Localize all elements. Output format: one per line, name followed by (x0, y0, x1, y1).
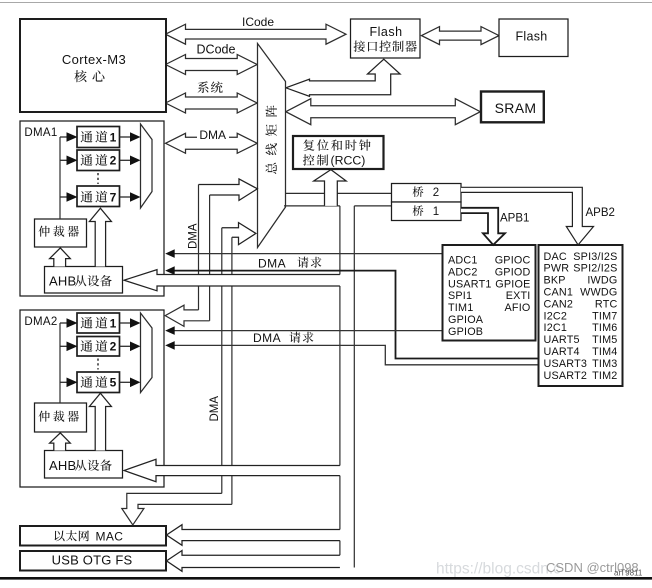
svg-text:TIM3: TIM3 (592, 358, 617, 370)
svg-text:USART3: USART3 (544, 358, 588, 370)
svg-text:https://blog.csdn.c: https://blog.csdn.c (436, 561, 561, 578)
svg-text:IWDG: IWDG (587, 275, 617, 287)
svg-text:AHB: AHB (49, 274, 76, 289)
svg-text:DMA: DMA (188, 223, 200, 249)
svg-text:DCode: DCode (197, 43, 236, 57)
svg-text:1: 1 (110, 130, 117, 144)
svg-text:5: 5 (110, 376, 117, 390)
svg-text:UART5: UART5 (544, 334, 580, 346)
svg-text:TIM1: TIM1 (448, 302, 473, 314)
svg-text:APB1: APB1 (500, 213, 529, 225)
svg-text:ICode: ICode (242, 15, 274, 29)
svg-text:TIM5: TIM5 (592, 334, 617, 346)
svg-text:CAN1: CAN1 (544, 287, 574, 299)
svg-text:Flash: Flash (369, 25, 402, 39)
svg-text:AHB: AHB (49, 458, 76, 473)
svg-text:SPI1: SPI1 (448, 290, 472, 302)
svg-text:GPIOC: GPIOC (495, 255, 531, 267)
svg-text:DMA1: DMA1 (24, 127, 57, 139)
svg-text:CAN2: CAN2 (544, 298, 574, 310)
svg-text:TIM6: TIM6 (592, 322, 617, 334)
svg-text:GPIOD: GPIOD (495, 266, 531, 278)
svg-text:SRAM: SRAM (495, 100, 537, 116)
svg-text:ADC1: ADC1 (448, 255, 478, 267)
svg-text:2: 2 (433, 187, 439, 199)
svg-text:PWR: PWR (544, 263, 570, 275)
svg-text:GPIOE: GPIOE (495, 278, 530, 290)
svg-text:USART1: USART1 (448, 278, 492, 290)
svg-text:SPI2/I2S: SPI2/I2S (573, 263, 617, 275)
svg-text:2: 2 (110, 154, 117, 168)
svg-text:USB OTG FS: USB OTG FS (52, 552, 133, 567)
svg-text:DMA: DMA (258, 257, 286, 271)
svg-text:WWDG: WWDG (580, 287, 617, 299)
svg-text:AFIO: AFIO (505, 302, 531, 314)
svg-text:MAC: MAC (96, 529, 124, 543)
svg-text:I2C1: I2C1 (544, 322, 568, 334)
svg-text:DMA: DMA (209, 396, 221, 422)
svg-text:SPI3/I2S: SPI3/I2S (573, 251, 617, 263)
svg-text:GPIOB: GPIOB (448, 326, 483, 338)
svg-text:1: 1 (110, 316, 117, 330)
svg-text:RTC: RTC (595, 298, 618, 310)
svg-text:1: 1 (433, 206, 439, 218)
svg-text:USART2: USART2 (544, 370, 588, 382)
svg-text:Flash: Flash (515, 29, 547, 43)
svg-text:TIM7: TIM7 (592, 310, 617, 322)
svg-text:I2C2: I2C2 (544, 310, 568, 322)
svg-text:2: 2 (110, 340, 117, 354)
svg-text:DMA: DMA (199, 128, 226, 142)
svg-text:DMA: DMA (253, 331, 281, 345)
svg-text:GPIOA: GPIOA (448, 314, 484, 326)
svg-text:BKP: BKP (544, 275, 566, 287)
svg-text:TIM4: TIM4 (592, 346, 617, 358)
svg-text:UART4: UART4 (544, 346, 580, 358)
svg-text:(RCC): (RCC) (331, 154, 366, 168)
svg-text:TIM2: TIM2 (592, 370, 617, 382)
svg-text:DAC: DAC (544, 251, 567, 263)
svg-text:aiT9811: aiT9811 (614, 569, 643, 578)
svg-text:DMA2: DMA2 (24, 316, 57, 328)
svg-text:EXTI: EXTI (506, 290, 531, 302)
svg-text:Cortex-M3: Cortex-M3 (62, 52, 126, 67)
svg-text:7: 7 (110, 190, 117, 204)
svg-text:ADC2: ADC2 (448, 266, 478, 278)
svg-text:APB2: APB2 (586, 207, 615, 219)
